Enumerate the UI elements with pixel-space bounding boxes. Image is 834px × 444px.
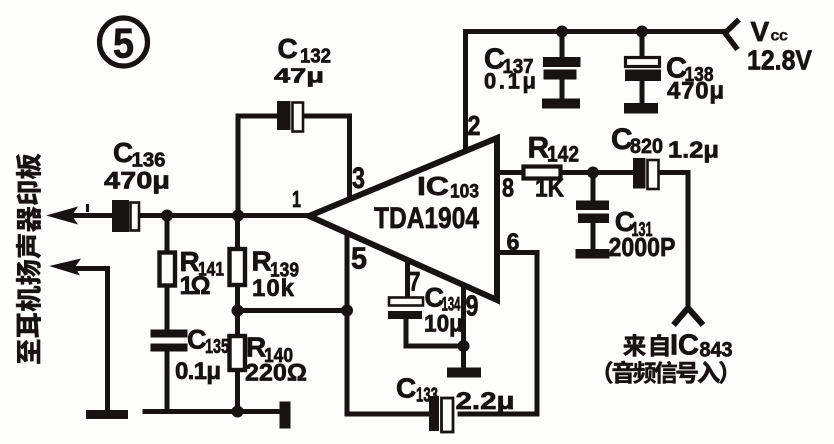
capacitor C133 plates xyxy=(429,396,453,432)
pin 8 label xyxy=(502,173,514,203)
pin 3 label xyxy=(352,162,365,195)
svg-text:0.1μ: 0.1μ xyxy=(484,69,536,94)
wire: audio input line xyxy=(686,173,691,307)
label 来自IC843 xyxy=(623,330,733,362)
svg-text:C: C xyxy=(113,137,133,168)
svg-text:3: 3 xyxy=(352,162,365,195)
label C132 47u xyxy=(274,33,331,88)
label R140 220ohm xyxy=(245,332,307,387)
svg-text:132: 132 xyxy=(300,46,331,68)
capacitor C134 plates xyxy=(388,298,423,320)
svg-text:C: C xyxy=(396,373,416,404)
svg-text:135: 135 xyxy=(205,336,229,358)
svg-text:142: 142 xyxy=(547,142,579,167)
capacitor C820 plates xyxy=(633,158,659,189)
svg-text:TDA1904: TDA1904 xyxy=(374,202,479,235)
svg-text:1K: 1K xyxy=(535,175,564,203)
svg-text:470μ: 470μ xyxy=(104,168,170,195)
wire: C138 stubs xyxy=(640,32,645,105)
junction node bottom rail/R140 xyxy=(232,406,244,418)
wire: headphone return branch xyxy=(74,269,108,411)
capacitor C138 plates xyxy=(625,58,661,82)
pin 7 label xyxy=(409,267,421,297)
label C131 2000P xyxy=(609,206,676,262)
ground bar under headphone return xyxy=(86,410,128,419)
svg-text:47μ: 47μ xyxy=(274,66,324,88)
wire: C131 leads xyxy=(591,173,596,251)
capacitor C132 plates xyxy=(277,101,303,132)
wire: divider node to pin 5 xyxy=(238,308,348,313)
output arrow to headphone board xyxy=(46,207,78,225)
wire: Vcc supply rail xyxy=(466,29,726,34)
svg-text:1Ω: 1Ω xyxy=(180,272,211,300)
wire: C137 stubs xyxy=(560,32,565,100)
C131 ground bar xyxy=(576,249,610,259)
svg-text:C: C xyxy=(278,33,298,64)
svg-text:220Ω: 220Ω xyxy=(245,360,307,387)
label R141 1ohm xyxy=(180,246,225,300)
label 至耳机扬声器印板 rotated xyxy=(16,153,41,364)
wire: R139/R140 branch vertical xyxy=(235,216,240,412)
pin9 ground bar xyxy=(447,368,481,378)
label IC103 xyxy=(417,171,479,203)
svg-text:C: C xyxy=(187,325,207,355)
label C820 1.2u xyxy=(611,123,719,163)
junction node main/C132/R139 xyxy=(232,210,244,222)
svg-text:7: 7 xyxy=(409,267,421,297)
pin 5 label xyxy=(351,241,367,276)
capacitor C135 plates xyxy=(151,330,188,352)
ground stub bottom-left rail end xyxy=(280,402,291,429)
resistor R139 body xyxy=(230,249,246,285)
svg-text:470μ: 470μ xyxy=(667,78,724,105)
C137 ground bar xyxy=(542,99,580,109)
label C135 0.1u xyxy=(175,325,229,386)
svg-text:R: R xyxy=(252,246,272,277)
svg-text:2.2μ: 2.2μ xyxy=(456,388,515,415)
junction node rail/C138 xyxy=(636,26,648,38)
svg-text:5: 5 xyxy=(351,241,367,276)
svg-text:843: 843 xyxy=(700,339,733,362)
svg-text:10k: 10k xyxy=(252,275,295,302)
wire: main output net pin 1 xyxy=(70,213,310,218)
label TDA1904 xyxy=(374,202,479,235)
pin 1 label xyxy=(292,186,301,212)
pin 2 label xyxy=(468,110,481,141)
capacitor C137 plates xyxy=(543,57,581,80)
Vcc connector chevron xyxy=(725,20,739,50)
wire: C132 feedback loop xyxy=(238,116,350,216)
junction node rail/C137 xyxy=(556,26,568,38)
audio input connector chevron xyxy=(674,308,704,325)
junction node pin5/feedback xyxy=(341,305,353,317)
svg-text:5: 5 xyxy=(113,20,134,67)
figure number (5) xyxy=(100,18,148,67)
svg-text:1: 1 xyxy=(292,186,301,212)
resistor R142 body xyxy=(524,167,561,179)
pin 6 label xyxy=(507,229,520,256)
svg-text:6: 6 xyxy=(507,229,520,256)
C138 ground bar xyxy=(624,103,658,114)
svg-text:1.2μ: 1.2μ xyxy=(668,137,719,163)
label R139 10k xyxy=(252,246,300,303)
wire: pin 9 vertical xyxy=(461,286,466,368)
resistor R141 body xyxy=(160,253,176,286)
label C137 0.1u xyxy=(484,44,536,94)
label C138 470u xyxy=(666,53,724,105)
svg-text:IC: IC xyxy=(417,171,449,201)
label (音频信号入) xyxy=(605,361,726,384)
svg-text:103: 103 xyxy=(450,181,479,203)
label Vcc xyxy=(751,16,789,47)
capacitor C136 plates xyxy=(112,200,139,232)
svg-text:2: 2 xyxy=(468,110,481,141)
junction node R142/C131/C820 xyxy=(587,167,599,179)
pin 9 label xyxy=(466,291,479,323)
capacitor C131 plates xyxy=(576,201,609,224)
label R142 1K xyxy=(528,132,580,203)
svg-text:2000P: 2000P xyxy=(609,232,676,262)
svg-text:IC: IC xyxy=(670,330,699,362)
svg-text:820: 820 xyxy=(630,135,663,158)
wire: bottom-left ground rail xyxy=(145,409,286,414)
label C134 10u xyxy=(424,283,463,338)
wire: R141 branch vertical xyxy=(165,216,170,412)
wire: C134 lower lead xyxy=(406,319,464,346)
svg-text:133: 133 xyxy=(416,385,438,407)
label 12.8V xyxy=(747,45,812,76)
junction node C134/pin9 xyxy=(458,340,470,352)
junction node R139/R140 divider xyxy=(232,305,244,317)
svg-text:9: 9 xyxy=(466,291,479,323)
svg-text:12.8V: 12.8V xyxy=(747,45,812,76)
svg-text:10μ: 10μ xyxy=(424,311,463,338)
headphone return arrow xyxy=(49,259,81,276)
op-amp U1 IC103 TDA1904 xyxy=(309,138,497,300)
wire: pin 5 vertical xyxy=(345,232,350,414)
wire: pin 6 loop xyxy=(347,253,537,415)
svg-text:c: c xyxy=(779,28,788,45)
wire: pin 8 through R142 to C820 xyxy=(496,170,688,175)
label C136 470u xyxy=(104,137,170,195)
resistor R140 body xyxy=(230,336,246,370)
junction node main/R141 xyxy=(161,210,173,222)
wire: pin 2 to supply rail xyxy=(463,32,468,154)
svg-text:V: V xyxy=(751,16,770,47)
svg-text:8: 8 xyxy=(502,173,514,203)
tick artifact on main wire xyxy=(86,204,89,212)
svg-text:0.1μ: 0.1μ xyxy=(175,358,221,385)
label C133 2.2u xyxy=(396,373,515,416)
wire: pin 7 stub xyxy=(405,261,410,298)
